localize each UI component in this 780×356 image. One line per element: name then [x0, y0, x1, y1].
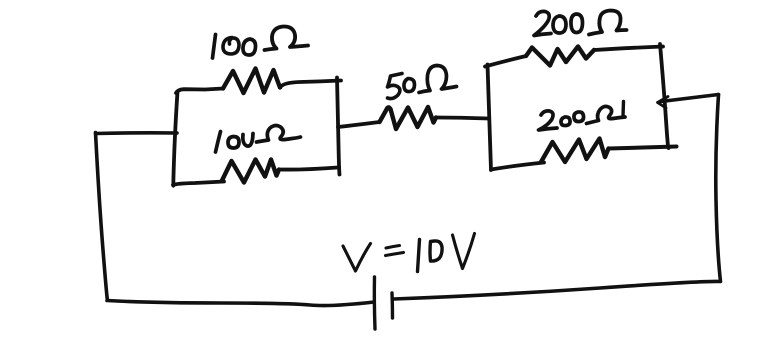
resistor R4 200ohm zigzag top	[526, 47, 594, 66]
wire: from right box to outer loop	[661, 95, 719, 102]
wire: left box to 50ohm	[338, 122, 380, 127]
label 200ohm top: digit 0b	[571, 14, 583, 33]
left box bottom branch wire right	[279, 168, 338, 170]
label 200ohm top: digit 2	[534, 11, 551, 35]
wire: left branch from node A to outer loop	[96, 131, 178, 135]
label 50ohm: omega	[419, 66, 457, 93]
label 100ohm top: digit 0a	[223, 38, 239, 55]
right box top branch wire right	[594, 47, 663, 51]
label 200ohm inner: digit 0b	[574, 112, 584, 122]
label 200ohm top: digit 0a	[553, 16, 566, 33]
label 200ohm inner: digit 2	[539, 111, 558, 130]
resistor R5 200ohm zigzag bottom	[541, 139, 609, 163]
right parallel box: left edge	[488, 65, 492, 171]
resistor R1 100ohm zigzag top	[223, 69, 280, 94]
left parallel box: left edge	[173, 92, 177, 186]
right box top branch wire left	[485, 56, 526, 67]
label 100ohm inner: digit 0b	[243, 134, 253, 147]
label V=10V: equals	[386, 246, 404, 256]
wire: outer loop right vertical	[716, 95, 721, 282]
label 200ohm inner: omega cursive	[587, 106, 626, 123]
battery V1 plate short	[390, 293, 394, 318]
label 200ohm top: omega	[589, 11, 627, 35]
left box bottom branch wire left	[173, 182, 224, 186]
label 200ohm inner: tick	[621, 102, 625, 117]
label 100ohm top: digit 1	[213, 35, 216, 59]
right box bottom branch wire left	[491, 163, 544, 170]
resistor R2 100ohm zigzag bottom	[222, 160, 279, 183]
label 50ohm: digit 0	[404, 79, 415, 92]
label 100ohm inner: digit 1	[216, 132, 221, 153]
label V=10V: digit 0	[430, 241, 442, 261]
label V=10V: V2	[453, 234, 475, 269]
left box top branch wire left	[176, 89, 223, 94]
label 100ohm top: omega	[265, 26, 309, 50]
wire: outer loop bottom right segment	[394, 281, 719, 299]
junction arrow mark at right box exit	[658, 97, 669, 109]
label 100ohm top: digit 0b	[243, 39, 256, 55]
wire: outer loop left vertical	[96, 133, 108, 301]
label 50ohm: digit 5	[388, 74, 403, 99]
label 100ohm inner: omega cursive	[257, 125, 301, 142]
wire: outer loop bottom left segment	[107, 301, 374, 306]
resistor R3 50ohm zigzag	[380, 107, 437, 129]
label 100ohm inner: digit 0a	[228, 137, 239, 149]
label 200ohm inner: digit 0a	[561, 117, 570, 126]
label V=10V: digit 1	[418, 240, 420, 272]
wire: 50ohm to right box	[436, 118, 489, 119]
right box right edge	[660, 44, 669, 148]
right box bottom branch wire right with stub	[609, 147, 677, 149]
left box top branch wire right	[280, 81, 341, 88]
left box right edge	[337, 78, 340, 175]
label V=10V: V1	[343, 244, 371, 272]
battery V1 plate long	[373, 277, 377, 329]
